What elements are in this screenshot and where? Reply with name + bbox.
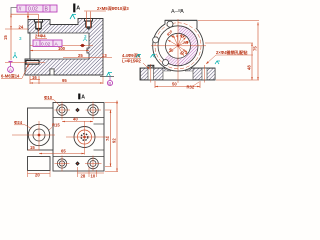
cavity white xyxy=(30,33,89,59)
svg-text:48: 48 xyxy=(247,65,252,70)
red plug mark xyxy=(81,44,84,47)
bolt holes xyxy=(167,21,173,27)
bore circle xyxy=(166,33,191,58)
counterbored hole left xyxy=(35,20,43,31)
dim 20 bottom xyxy=(28,173,51,175)
svg-text:20: 20 xyxy=(35,172,40,177)
svg-text:L=Φ15Φ2: L=Φ15Φ2 xyxy=(122,59,142,64)
svg-text:92: 92 xyxy=(112,138,117,143)
svg-text:100: 100 xyxy=(58,46,66,51)
svg-text:15: 15 xyxy=(30,145,35,150)
svg-text:16: 16 xyxy=(32,75,37,80)
svg-text:13: 13 xyxy=(102,53,107,58)
dim 16 bottom left xyxy=(30,76,40,84)
dim 95 bottom xyxy=(30,82,103,84)
svg-text:⊥: ⊥ xyxy=(35,41,39,47)
left vertical dim xyxy=(5,14,38,61)
FCF perp 0.02 A in cavity xyxy=(33,40,62,47)
svg-text:50: 50 xyxy=(172,82,177,87)
svg-text:65: 65 xyxy=(61,149,66,154)
main body xyxy=(53,103,104,172)
pocket lines right xyxy=(94,123,105,125)
FCF parallel 0.02 B xyxy=(11,5,57,16)
section mark A top xyxy=(73,4,80,13)
outer boss circle r20 xyxy=(158,26,198,66)
svg-text:Φ10: Φ10 xyxy=(44,95,53,100)
main circular body xyxy=(153,20,204,71)
dim 40 xyxy=(62,121,93,123)
slot feature left (6-M6) xyxy=(26,61,39,65)
right dims 48 / 75 xyxy=(198,20,259,80)
bottom band circles xyxy=(55,156,70,172)
dims 28 / 10 bottom xyxy=(78,172,105,174)
dim 100 in cavity xyxy=(30,50,89,52)
cyan right xyxy=(215,61,220,64)
svg-text:R4: R4 xyxy=(184,41,188,45)
leader arrow from FCF xyxy=(27,12,29,19)
crosshairs xyxy=(151,45,206,47)
roughness box right xyxy=(148,65,154,71)
diamond top xyxy=(75,108,79,112)
section mark A bottom view xyxy=(78,94,80,100)
bottom notch xyxy=(50,69,54,75)
svg-text:0.02: 0.02 xyxy=(28,7,38,13)
svg-text:2×M5深8Φ10深3: 2×M5深8Φ10深3 xyxy=(97,5,129,12)
base flange xyxy=(140,68,215,80)
svg-text:A: A xyxy=(81,95,85,101)
svg-text:2×Φ4: 2×Φ4 xyxy=(35,34,46,39)
dim 65 xyxy=(39,153,85,155)
red centerline side hole xyxy=(30,45,93,47)
svg-text:40: 40 xyxy=(73,117,78,122)
center circle xyxy=(66,121,107,155)
svg-text:A: A xyxy=(76,5,80,11)
svg-text:75: 75 xyxy=(253,46,258,51)
dim 50 under flange xyxy=(155,81,200,88)
svg-text:0.02: 0.02 xyxy=(41,41,51,47)
left boss circle xyxy=(12,121,55,150)
red centerline hole1 xyxy=(38,14,40,36)
svg-text:74: 74 xyxy=(105,136,110,141)
svg-text:28: 28 xyxy=(81,174,86,179)
svg-text:95: 95 xyxy=(62,78,67,83)
top band circles xyxy=(55,102,71,120)
flange slot centerlines xyxy=(150,64,152,83)
bolt circle dashed red xyxy=(155,23,201,69)
svg-text:Φ24: Φ24 xyxy=(14,120,23,125)
hatched ring C shape xyxy=(164,26,198,66)
counterbored hole right xyxy=(85,19,93,30)
svg-text:R15: R15 xyxy=(52,123,60,128)
dim 15 xyxy=(28,149,39,151)
dims 74 / 92 right xyxy=(110,110,112,167)
svg-text:B: B xyxy=(108,81,111,86)
datum balloon A bottom-right with finish mark xyxy=(100,73,114,86)
datum balloon left xyxy=(8,62,14,74)
radial spokes red xyxy=(168,34,189,56)
cyan finish top xyxy=(70,15,76,20)
dim 2xM5 top xyxy=(84,11,106,28)
svg-text:24: 24 xyxy=(19,24,24,29)
svg-text:25: 25 xyxy=(78,53,83,58)
flange wedges at circle tangency xyxy=(163,68,171,71)
dim 25 / 13 xyxy=(63,57,112,59)
body hatched region xyxy=(25,19,103,76)
leader note left xyxy=(136,55,141,58)
diamond bottom xyxy=(75,161,79,165)
svg-text:10: 10 xyxy=(91,174,96,179)
svg-text:15: 15 xyxy=(3,35,8,40)
left tab xyxy=(28,108,54,150)
